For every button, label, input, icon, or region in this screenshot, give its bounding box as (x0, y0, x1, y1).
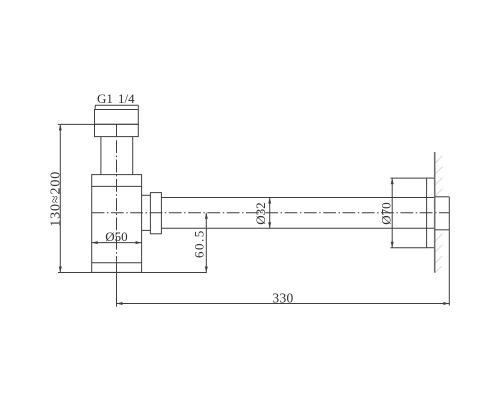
dimension D32 line (269, 198, 271, 229)
bottom extension line (130/200 and 60.5 datum) (58, 272, 207, 274)
dimension D32 arrow top (268, 198, 271, 204)
dimension D70 arrow bottom (391, 242, 394, 248)
wall tube right edge + 330 extension line (448, 197, 450, 306)
svg-text:Ø50: Ø50 (105, 229, 127, 244)
vertical centerline of trap body (dash-dot) (116, 140, 118, 261)
outlet stub top edge (142, 194, 151, 196)
dimension G1 1/4 line (95, 104, 138, 106)
dimension D70 line (391, 178, 393, 248)
outlet pipe top edge (161, 197, 434, 199)
trap body lower collar line (92, 262, 142, 264)
wall tube bottom edge (435, 229, 450, 231)
wall flange (escutcheon) (427, 178, 435, 248)
dimension D70 arrow top (391, 178, 394, 184)
top nut cap lower band (95, 124, 139, 136)
dimension G1 1/4 right tick (137, 105, 139, 109)
dimension 330 arrow right (443, 302, 449, 305)
svg-text:Ø32: Ø32 (253, 202, 268, 224)
dimension 130-200 arrow top (59, 124, 62, 130)
dimension D70 extension line bottom (390, 247, 426, 249)
top nut cap upper band (95, 110, 139, 125)
dimension 60.5 arrow top (205, 213, 208, 219)
dimension 60.5 line (205, 213, 207, 273)
compression nut (150, 193, 161, 234)
dimension D50 line (92, 242, 142, 244)
wall hatching (435, 156, 442, 273)
dimension 130-200 line (59, 124, 61, 272)
wall line (434, 152, 436, 273)
svg-text:Ø70: Ø70 (379, 202, 394, 224)
trap body upper collar line (92, 185, 142, 187)
trap body outline (92, 175, 142, 273)
dimension D50 arrow left (92, 241, 98, 244)
svg-text:G1 1/4: G1 1/4 (97, 91, 135, 106)
tailpiece tube right edge (132, 137, 134, 175)
dimension 330 line (117, 303, 450, 305)
wall tube top edge (435, 196, 450, 198)
dimension G1 1/4 left tick (94, 105, 96, 109)
horizontal centerline of outlet pipe (92, 212, 450, 214)
vertical centerline of trap body (lower solid segment) (116, 262, 118, 307)
vertical centerline of trap body (cap segment) (116, 124, 118, 137)
outlet pipe bottom edge (161, 227, 434, 229)
svg-text:330: 330 (272, 291, 293, 306)
dimension D50 arrow right (136, 241, 142, 244)
dimension 130-200 extension line top (58, 123, 95, 125)
dimension 60.5 arrow bottom (205, 267, 208, 273)
tailpiece tube left edge (100, 137, 102, 175)
dimension D32 arrow bottom (268, 222, 271, 228)
dimension 130-200 arrow bottom (59, 267, 62, 273)
dimension D70 extension line top (390, 177, 426, 179)
dimension 330 arrow left (117, 302, 123, 305)
svg-text:60.5: 60.5 (192, 229, 207, 258)
svg-text:130≈200: 130≈200 (49, 171, 64, 227)
outlet stub bottom edge (142, 229, 151, 231)
